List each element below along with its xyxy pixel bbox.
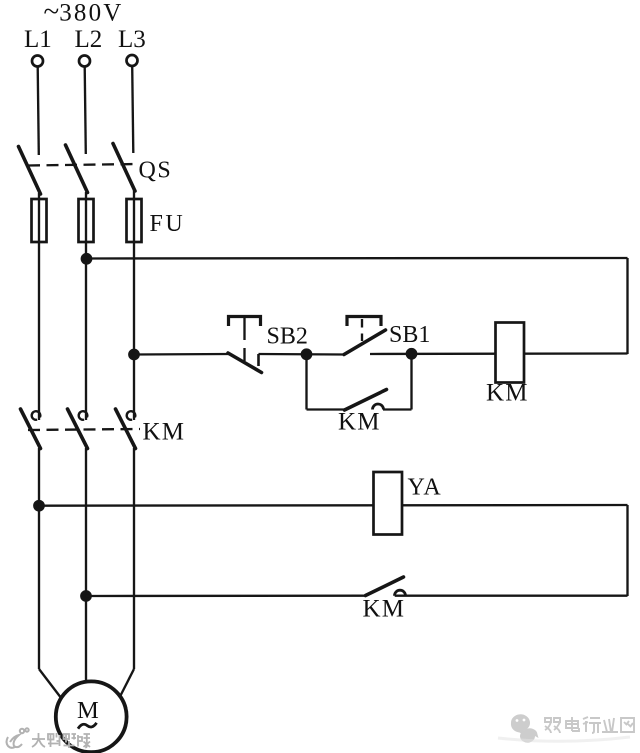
pushbutton SB1 cap <box>347 317 381 327</box>
contact KM auxiliary blade (NO self-hold) <box>345 390 387 411</box>
wire L1 terminal to QS <box>38 67 39 156</box>
label YA <box>408 475 442 501</box>
wire control rail L3 to SB2 <box>134 353 229 356</box>
node L2 label <box>75 26 103 53</box>
svg-text:KM: KM <box>143 419 186 446</box>
wire right side drop (brake loop) <box>626 505 628 596</box>
junction node A dot <box>302 350 311 359</box>
wire QS pole2 to fuse <box>85 192 87 259</box>
terminal L2 <box>79 56 90 67</box>
wire YA rail <box>39 504 628 507</box>
terminal L1 <box>32 56 43 67</box>
wire branch left down <box>305 354 307 410</box>
contactor KM main pole 2 hook <box>79 411 88 420</box>
motor M circle <box>56 681 127 752</box>
node L1 label <box>24 26 52 53</box>
fuse FU pole 1 <box>32 199 47 242</box>
fuse FU pole 3 <box>127 199 142 242</box>
junction node B dot <box>407 349 416 358</box>
wire L1 below KM <box>38 448 40 669</box>
wire QS pole1 to fuse <box>38 193 40 259</box>
contact KM brake fixed contact arc <box>395 590 406 596</box>
contactor KM main pole 1 blade <box>21 409 41 449</box>
wire SB1 to KM coil <box>370 352 628 355</box>
wire SB2 to SB1 <box>259 353 345 356</box>
junction dot L1 YA rail <box>34 501 43 510</box>
svg-text:SB1: SB1 <box>389 322 430 348</box>
pushbutton SB2 blade (NC) <box>228 353 262 373</box>
svg-text:QS: QS <box>139 158 173 184</box>
svg-text:M: M <box>77 697 99 724</box>
svg-text:YA: YA <box>408 475 442 501</box>
label KM brake <box>363 596 406 623</box>
label FU <box>150 211 186 237</box>
wire phase L1 fuse to KM contact <box>38 259 40 421</box>
coil YA <box>374 472 403 535</box>
svg-text:SB2: SB2 <box>267 324 308 350</box>
label M motor <box>77 697 99 724</box>
svg-text:FU: FU <box>150 211 186 237</box>
wire L3 below KM <box>133 448 135 669</box>
label QS <box>139 158 173 184</box>
QS linkage dashed line <box>28 164 139 166</box>
contactor KM main pole 2 blade <box>68 409 88 449</box>
wire QS pole3 to fuse <box>133 191 135 259</box>
label KM auxiliary <box>338 409 381 436</box>
junction dot L2 top rail <box>82 254 91 263</box>
svg-text:KM: KM <box>486 380 529 407</box>
wire branch bottom right <box>383 408 412 410</box>
svg-text:L1: L1 <box>24 26 52 53</box>
motor AC tilde <box>78 723 97 729</box>
junction dot L2 brake rail <box>81 591 90 600</box>
KM main linkage dashed line <box>28 429 140 430</box>
coil KM <box>496 323 525 383</box>
pushbutton SB1 blade (NO) <box>344 330 386 355</box>
wire L3 lead to motor <box>120 669 135 698</box>
label SB2 <box>267 324 308 350</box>
pushbutton SB2 cap <box>229 317 261 327</box>
label KM coil <box>486 380 529 407</box>
label ~380V supply <box>44 0 124 28</box>
contactor KM main pole 3 hook <box>127 411 136 420</box>
wire L2 terminal to QS <box>85 67 86 155</box>
wire top rail <box>87 257 628 260</box>
contactor KM main pole 1 hook <box>32 411 41 420</box>
wire right side drop (control) <box>626 258 628 354</box>
switch QS pole 3 blade <box>113 144 135 192</box>
pushbutton SB2 fixed contact <box>257 354 260 366</box>
svg-text:L3: L3 <box>118 26 146 53</box>
switch QS pole 2 blade <box>66 145 88 193</box>
label SB1 <box>389 322 430 348</box>
watermark bottom-right swoosh <box>498 737 630 741</box>
switch QS pole 1 blade <box>19 147 41 195</box>
watermark bottom-right logo <box>511 714 539 742</box>
watermark bottom-left logo <box>7 728 29 748</box>
wire L1 lead to motor <box>39 669 62 699</box>
contact KM auxiliary fixed contact arc <box>373 404 384 410</box>
watermark bottom-right text <box>545 717 634 733</box>
wire L3 terminal to QS <box>132 66 133 153</box>
terminal L3 <box>127 55 138 66</box>
wire L2 below KM <box>85 448 87 684</box>
watermark bottom-left text <box>32 733 90 748</box>
wire phase L3 fuse to KM contact <box>133 259 135 421</box>
wire brake rail right <box>395 595 628 597</box>
wire branch right up <box>410 354 412 410</box>
fuse FU pole 2 <box>79 199 94 242</box>
svg-text:L2: L2 <box>75 26 103 53</box>
wire brake rail left <box>86 595 366 598</box>
junction dot L3 control rail <box>129 350 138 359</box>
svg-text:KM: KM <box>363 596 406 623</box>
node L3 label <box>118 26 146 53</box>
wire branch bottom left <box>307 408 345 410</box>
pushbutton SB2 stem <box>243 318 245 361</box>
contactor KM main pole 3 blade <box>116 409 136 449</box>
svg-text:~380V: ~380V <box>44 0 124 28</box>
label KM main <box>143 419 186 446</box>
contact KM brake blade (NO) <box>366 577 404 596</box>
pushbutton SB1 stem <box>361 319 363 341</box>
wire phase L2 fuse to KM contact <box>85 259 87 421</box>
svg-text:KM: KM <box>338 409 381 436</box>
